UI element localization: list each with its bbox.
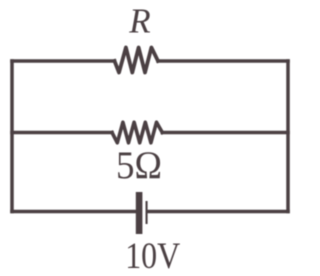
wire middle-left segment	[12, 131, 112, 135]
wire right vertical	[286, 61, 290, 212]
wire middle-right segment	[162, 131, 288, 135]
wire top-right segment	[158, 59, 288, 63]
wire bottom-right segment	[148, 210, 289, 214]
resistor 5Ω	[112, 122, 162, 143]
wire bottom-left segment	[12, 210, 136, 214]
svg-text:R: R	[128, 1, 150, 40]
battery 10V short plate	[146, 201, 148, 224]
wire left vertical	[10, 61, 14, 212]
battery 10V long plate	[136, 192, 143, 234]
svg-text:10V: 10V	[125, 235, 180, 276]
svg-text:5Ω: 5Ω	[116, 143, 162, 187]
resistor R	[115, 48, 159, 73]
wire top-left segment	[12, 59, 115, 63]
